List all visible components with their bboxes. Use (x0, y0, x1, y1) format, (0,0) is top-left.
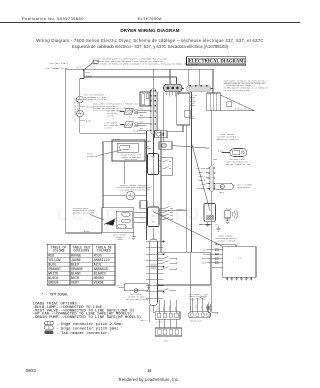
band 1 left stubs (138, 108, 151, 131)
left vertical bus (65, 69, 67, 233)
footer page number (147, 368, 151, 373)
title box ELECTRICAL DIAGRAM (187, 57, 246, 65)
svg-text:LA TOMA DE ALIMENTACION: LA TOMA DE ALIMENTACION (224, 89, 249, 92)
central bus 4 (191, 92, 193, 252)
label L1L (46, 67, 70, 70)
svg-text:RESISTENCIA: RESISTENCIA (125, 158, 138, 161)
svg-text:RED: RED (140, 108, 144, 111)
svg-text:WHT: WHT (152, 216, 155, 218)
console box (177, 93, 190, 125)
diagonal wire 2 (153, 212, 223, 247)
svg-text:RED: RED (152, 222, 155, 224)
hi-limit thermostat 2 (120, 122, 147, 127)
svg-text:LINE(OPT): LINE(OPT) (176, 209, 186, 211)
svg-text:P.B: P.B (238, 257, 242, 260)
connector J1 (189, 298, 211, 322)
svg-text:NARANJA: NARANJA (94, 268, 108, 272)
ladder 2 stubs with switches (160, 207, 173, 220)
svg-text:BLK: BLK (140, 127, 144, 130)
svg-text:BLK: BLK (152, 210, 156, 212)
exhaust limiter note (116, 184, 153, 192)
svg-text:WHT: WHT (140, 121, 144, 124)
motor sensor comp (159, 142, 209, 150)
svg-text:- Edge connector pitch 2.5mm;: - Edge connector pitch 2.5mm; (57, 322, 124, 327)
drive motor box (102, 208, 134, 233)
thermal fuse circle 1 (76, 96, 93, 108)
svg-text:L1B: L1B (203, 253, 207, 256)
svg-text:B.50: B.50 (151, 172, 155, 174)
svg-text:FUSIBLE TERMICO: FUSIBLE TERMICO (77, 99, 79, 115)
svg-text:OPT: OPT (191, 116, 195, 118)
svg-text:CONVERTER: CONVERTER (87, 155, 98, 158)
joint ground (214, 223, 220, 231)
wire drops to blocks (170, 69, 200, 85)
svg-text:BLEU: BLEU (71, 264, 79, 268)
terminal block 1 (164, 84, 183, 96)
small box on bus (140, 201, 147, 208)
transformer TR (200, 203, 216, 226)
heater box (112, 140, 145, 161)
svg-text:ROUGE: ROUGE (71, 255, 81, 259)
svg-text:GREEN: GREEN (48, 282, 58, 286)
svg-text:VERDE: VERDE (94, 282, 104, 286)
svg-text:(GEL3): (GEL3) (140, 320, 146, 322)
svg-text:LED DEL TAMBOR DEL LED: LED DEL TAMBOR DEL LED (226, 163, 251, 166)
svg-text:LOAD 2: LOAD 2 (198, 175, 205, 178)
note block lint (84, 93, 109, 101)
ladder 3 (146, 239, 164, 306)
legend symbol edge 2.5mm (44, 321, 123, 327)
optional note (41, 292, 69, 297)
thermal fuse circle 2 (77, 110, 92, 123)
loads triac note (33, 303, 141, 321)
wire ladder3 bottom (150, 305, 156, 322)
svg-text:BLACK: BLACK (84, 230, 90, 233)
svg-text:BLACK: BLACK (226, 207, 232, 210)
wire stub circle top (80, 76, 84, 79)
label black bottom (84, 230, 90, 233)
motor ground (131, 232, 135, 239)
wire heater right + yellow label (145, 147, 151, 149)
label black heater (115, 138, 121, 141)
svg-text:4 PIN M: 4 PIN M (156, 321, 164, 323)
pcb left pins (202, 248, 223, 264)
svg-text:ORG: ORG (140, 114, 144, 117)
svg-text:BELT: BELT (219, 191, 224, 194)
hi-limit thermostat 1 (120, 109, 147, 114)
mist valve (116, 284, 149, 301)
svg-text:BLANCO: BLANCO (94, 273, 106, 277)
push-to-start switch (77, 60, 98, 77)
drive motor caption (113, 233, 127, 241)
label L1R (50, 62, 68, 65)
rotated left label (74, 97, 79, 122)
svg-text:LAMP: LAMP (202, 262, 207, 265)
note block door interlock (93, 102, 141, 110)
svg-text:COULEURS: COULEURS (73, 249, 89, 253)
motor switch note (73, 207, 104, 220)
main board caption (189, 293, 208, 301)
svg-text:NO OPT: NO OPT (191, 95, 198, 97)
svg-text:LINE: LINE (175, 307, 177, 311)
color table (47, 244, 115, 285)
transformer box (207, 93, 221, 111)
svg-text:ROJO: ROJO (94, 255, 102, 259)
sensor box (155, 131, 168, 138)
legend symbol tab header (44, 331, 109, 337)
console right stubs (190, 95, 199, 118)
svg-text:RED: RED (48, 255, 54, 259)
wire top bus L1 (66, 68, 213, 70)
junction box left of band (140, 92, 150, 106)
svg-text:NEGRO: NEGRO (94, 277, 104, 281)
central bus 2 (153, 131, 155, 239)
svg-text:SENSOR DEL MOTOR(HP): SENSOR DEL MOTOR(HP) (217, 138, 239, 141)
svg-text:EP3/M9 MAIN: EP3/M9 MAIN (190, 319, 202, 322)
svg-text:THERMAL FUSE SAFETY TSP: THERMAL FUSE SAFETY TSP (74, 97, 77, 122)
bus bend to connector (212, 267, 223, 315)
connector P3 below J2 (155, 319, 181, 343)
plugged door sensor (214, 183, 252, 194)
led door light caption (226, 158, 251, 166)
console sub box (185, 110, 191, 117)
svg-text:MOTOR: MOTOR (117, 238, 123, 241)
wire sensor drops (157, 92, 164, 142)
wire heater to thermostat (124, 161, 126, 184)
wire capsule link (182, 88, 214, 90)
watermark (57, 207, 238, 225)
svg-text:L1B SAFE: L1B SAFE (196, 167, 206, 170)
svg-text:BLUE: BLUE (86, 120, 91, 123)
label blue (134, 130, 139, 133)
svg-text:COLORS: COLORS (53, 249, 65, 253)
svg-text:LOAD2: LOAD2 (162, 306, 165, 311)
svg-text:LOAD3: LOAD3 (168, 306, 171, 311)
svg-text:AMARILLO: AMARILLO (94, 259, 110, 263)
svg-text:VALVULA NEBULIZADORA: VALVULA NEBULIZADORA (126, 298, 149, 301)
svg-text:LIMITE: LIMITE (107, 114, 115, 117)
front window note (215, 235, 238, 243)
svg-text:BLUE: BLUE (48, 264, 56, 268)
relay box (148, 154, 173, 175)
svg-text:BLANC: BLANC (71, 273, 81, 277)
pcb bottom pins (226, 277, 252, 280)
wire drop right (212, 69, 214, 93)
central bus 5 (185, 125, 187, 252)
svg-text:COLORES: COLORES (97, 249, 111, 253)
svg-text:DOOR SENSOR: DOOR SENSOR (238, 186, 251, 189)
svg-text:DEL: DEL (191, 103, 194, 105)
wire pcb top feed (216, 242, 236, 246)
svg-text:-DRAIN PUMP-->CONNECTED TO LIN: -DRAIN PUMP-->CONNECTED TO LINE SAFE(HP … (33, 315, 141, 320)
ladder 3 stub switches (157, 256, 176, 290)
svg-text:WHITE: WHITE (48, 273, 58, 277)
central bus 1 (146, 131, 148, 240)
bottom-left pin pair (200, 293, 212, 312)
bus pin connectors (196, 166, 215, 192)
svg-text:NEUTRAL: NEUTRAL (197, 187, 206, 190)
wire bus L2 (84, 76, 177, 78)
svg-text:ELECTRICAL DIAGRAM: ELECTRICAL DIAGRAM (189, 60, 245, 65)
edge connector band 1 (150, 69, 156, 156)
svg-text:- Tab header connector.: - Tab header connector. (57, 331, 110, 336)
svg-text:100K: 100K (214, 223, 219, 226)
svg-text:LIMITED: LIMITED (104, 126, 113, 129)
svg-text:HEAT: HEAT (164, 340, 169, 343)
svg-text:RED: RED (214, 158, 218, 161)
svg-text:LINE: LINE (196, 305, 198, 309)
header publication number (22, 16, 84, 21)
motor sensor note (217, 133, 239, 141)
svg-text:LIMITADOR TERMICO DE ESCAPE: LIMITADOR TERMICO DE ESCAPE (119, 189, 150, 192)
svg-text:PUSH: PUSH (86, 72, 90, 74)
svg-text:PUERTA O PANEL DE PUERTA DE AC: PUERTA O PANEL DE PUERTA DE ACERO INOXID… (92, 63, 198, 66)
edge connector ladder 2 (148, 207, 160, 227)
svg-text:JAUNE: JAUNE (71, 259, 81, 263)
svg-text:COM: COM (203, 248, 207, 251)
svg-text:VERT: VERT (71, 282, 79, 286)
note block top (trim note) (92, 58, 198, 66)
svg-text:ORANGE: ORANGE (71, 268, 83, 272)
note block right (door safety) (224, 79, 268, 92)
legend symbol edge 5mm (44, 326, 118, 332)
svg-text:* - OPTIONAL: * - OPTIONAL (41, 292, 69, 297)
svg-text:L1: L1 (77, 67, 79, 69)
svg-text:ASSEMBLY DE SECHAGE: ASSEMBLY DE SECHAGE (73, 212, 95, 215)
svg-text:L1R (OPT N 90°): L1R (OPT N 90°) (50, 62, 68, 65)
central bus 3 (160, 131, 162, 252)
page title (0, 28, 300, 33)
svg-text:SAFE: SAFE (205, 305, 208, 309)
svg-text:BLACK: BLACK (48, 277, 58, 281)
svg-text:LOAD1: LOAD1 (156, 306, 159, 311)
footer credit (0, 377, 298, 382)
svg-text:TERMINAR DE LA PELUSA: TERMINAR DE LA PELUSA (84, 98, 108, 101)
svg-text:BLACK: BLACK (218, 149, 224, 152)
svg-text:ORANGE: ORANGE (48, 268, 60, 272)
wire heater top (103, 142, 151, 208)
fuse block (187, 85, 212, 93)
footer date (26, 368, 36, 373)
subtitle line 1 (0, 38, 300, 43)
svg-text:→ 0.35 CU FT: → 0.35 CU FT (233, 108, 247, 111)
buzzer (225, 207, 238, 223)
main pcb box (223, 247, 256, 278)
header model number (138, 16, 162, 21)
svg-text:AZUL: AZUL (94, 264, 102, 268)
wire left bus to motor (66, 232, 102, 234)
note slower heater (104, 122, 123, 130)
wire line opt (159, 210, 186, 212)
wire circle chain (80, 79, 147, 134)
wire motor to bus (134, 213, 147, 223)
header rule (0, 22, 300, 23)
svg-text:BLACK: BLACK (86, 74, 92, 77)
triangle vent funnel (220, 95, 254, 111)
frame lines bottom center (157, 252, 211, 312)
exhaust thermostat circle (103, 191, 147, 207)
svg-text:LUMINOSO A BOTONES: LUMINOSO A BOTONES (217, 239, 238, 242)
led door light (214, 149, 247, 162)
right main bus (211, 111, 213, 313)
diagonal wire 1 (192, 143, 211, 211)
svg-text:NOIR: NOIR (71, 277, 79, 281)
svg-text:DOOR: DOOR (202, 257, 207, 260)
note hi-limit (107, 110, 121, 118)
svg-text:- Edge connector pitch 5mm;: - Edge connector pitch 5mm; (57, 327, 119, 332)
wire bottom joint (199, 224, 212, 226)
motor counterweight label (87, 150, 121, 158)
subtitle line 2 (0, 44, 300, 49)
connector J2 (155, 300, 180, 323)
svg-text:MOLY: MOLY (151, 156, 155, 158)
wire console drop (167, 125, 183, 132)
svg-text:P20: P20 (191, 99, 194, 101)
svg-text:YELLOW: YELLOW (48, 259, 60, 263)
label gel3 (140, 320, 146, 322)
